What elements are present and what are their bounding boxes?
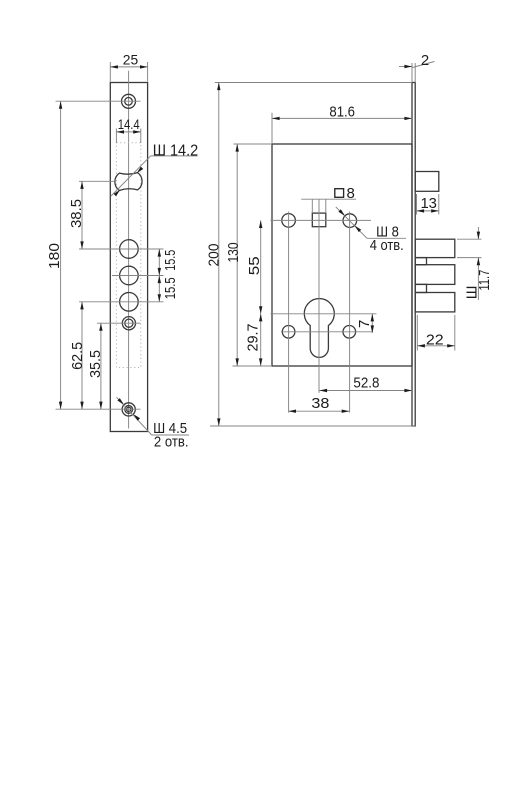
svg-text:35.5: 35.5	[87, 350, 104, 378]
svg-text:15.5: 15.5	[162, 277, 179, 299]
svg-text:25: 25	[123, 52, 139, 68]
dim 130 line	[236, 144, 238, 366]
spindle hole centerline	[79, 180, 116, 182]
faceplate vertical centerline	[128, 71, 130, 429]
follower square hole	[312, 213, 326, 227]
svg-text:180: 180	[46, 243, 63, 269]
svg-text:15.5: 15.5	[162, 250, 179, 271]
spindle hole Sh14.2 bone shape	[115, 173, 142, 191]
cutout dashed rectangle	[116, 143, 140, 368]
dim 200 bottom extension	[210, 425, 415, 427]
svg-text:2 отв.: 2 отв.	[154, 434, 189, 451]
deadbolt 1	[415, 239, 455, 257]
euro cylinder keyhole	[304, 299, 334, 358]
dim 15.5 lower	[158, 276, 161, 284]
dim 22 extension lines	[416, 315, 418, 351]
svg-text:55: 55	[246, 256, 263, 275]
lock case outline	[272, 144, 412, 366]
svg-text:14.4: 14.4	[118, 116, 140, 132]
deadbolt hole 3 centerline	[79, 301, 164, 303]
dim 14.4 extension lines	[115, 129, 117, 144]
square hole side extensions	[311, 199, 313, 213]
top fixing hole right	[343, 214, 357, 228]
middle vertical centerline	[318, 199, 320, 393]
dim 35.5 line	[100, 323, 102, 409]
cylinder fixing hole	[122, 317, 135, 330]
bottom screw hole	[122, 403, 135, 416]
dim 62.5 line	[81, 302, 83, 409]
latch bolt	[415, 172, 439, 192]
dim 130 extensions	[234, 143, 273, 145]
dim 38.5 line	[81, 181, 83, 249]
dim 25 extension lines	[109, 62, 111, 82]
dim 7 line	[371, 314, 373, 333]
deadbolt link 1	[415, 258, 426, 265]
deadbolt 3	[415, 293, 455, 312]
top screw hole centerline	[56, 100, 141, 102]
top fixing hole left	[282, 214, 296, 228]
svg-text:4 отв.: 4 отв.	[370, 237, 404, 254]
svg-text:22: 22	[426, 331, 444, 348]
bottom screw hole centerline	[56, 408, 141, 410]
dim 38 line	[288, 410, 349, 412]
deadbolt hole 2	[120, 266, 139, 285]
dim Sh 11.7 extensions	[457, 238, 482, 240]
svg-text:52.8: 52.8	[353, 374, 379, 391]
label square 8 underline	[301, 198, 356, 200]
dim 13 line	[417, 210, 439, 212]
svg-text:2: 2	[421, 52, 429, 69]
dim 25 line	[110, 66, 147, 68]
deadbolt link 2	[415, 284, 426, 292]
dim 2 extension lines	[411, 63, 413, 83]
bottom holes horizontal centerline	[281, 331, 372, 333]
dim 2 line	[399, 66, 412, 68]
faceplate edge view strip	[412, 83, 415, 427]
deadbolt hole 3	[120, 293, 139, 312]
dim 14.4 line	[116, 131, 140, 133]
svg-text:62.5: 62.5	[69, 342, 86, 370]
bottom fixing hole left	[282, 326, 295, 339]
right vertical centerline	[349, 212, 351, 413]
dim 81.6 line	[272, 117, 412, 119]
deadbolt 2	[415, 265, 455, 285]
svg-text:13: 13	[420, 195, 437, 212]
dim 15.5 upper	[158, 249, 160, 302]
dim Sh 11.7 line	[477, 227, 479, 239]
dim 52.8 line	[320, 390, 413, 392]
deadbolt hole 2 centerline	[112, 275, 164, 277]
dim 200 top extension	[215, 82, 412, 84]
dim 22 line	[417, 345, 455, 347]
label Sh 8 leader	[367, 237, 406, 239]
bottom fixing hole right	[343, 326, 356, 339]
svg-text:Ш 14.2: Ш 14.2	[153, 143, 199, 160]
deadbolt hole 1	[120, 240, 139, 259]
cylinder fixing hole centerline	[97, 322, 141, 324]
svg-text:38: 38	[311, 395, 329, 412]
dim 200 line	[218, 83, 220, 427]
dim 29.7 line	[260, 314, 262, 366]
top holes horizontal centerline	[271, 219, 372, 221]
svg-text:38.5: 38.5	[68, 199, 85, 228]
svg-text:8: 8	[347, 185, 355, 202]
top screw hole	[122, 94, 136, 108]
label square 8 symbol	[335, 189, 344, 198]
dim 81.6 extension	[271, 113, 273, 144]
svg-text:29.7: 29.7	[245, 324, 262, 352]
deadbolt hole 1 centerline	[79, 248, 164, 250]
svg-text:81.6: 81.6	[329, 103, 355, 120]
dim 180 line	[60, 101, 62, 409]
left vertical centerline	[288, 212, 290, 413]
label Sh 14.2 leader	[151, 155, 198, 157]
faceplate front view outline	[110, 83, 147, 432]
dim 13 extension lines	[416, 194, 418, 215]
label Sh 4.5 leader	[152, 434, 189, 436]
svg-text:200: 200	[205, 244, 222, 267]
keyhole horizontal centerline	[271, 313, 377, 315]
svg-text:Ш: Ш	[464, 286, 481, 300]
svg-text:7: 7	[356, 320, 373, 328]
svg-text:130: 130	[225, 242, 242, 262]
dim 55 line	[260, 220, 262, 313]
